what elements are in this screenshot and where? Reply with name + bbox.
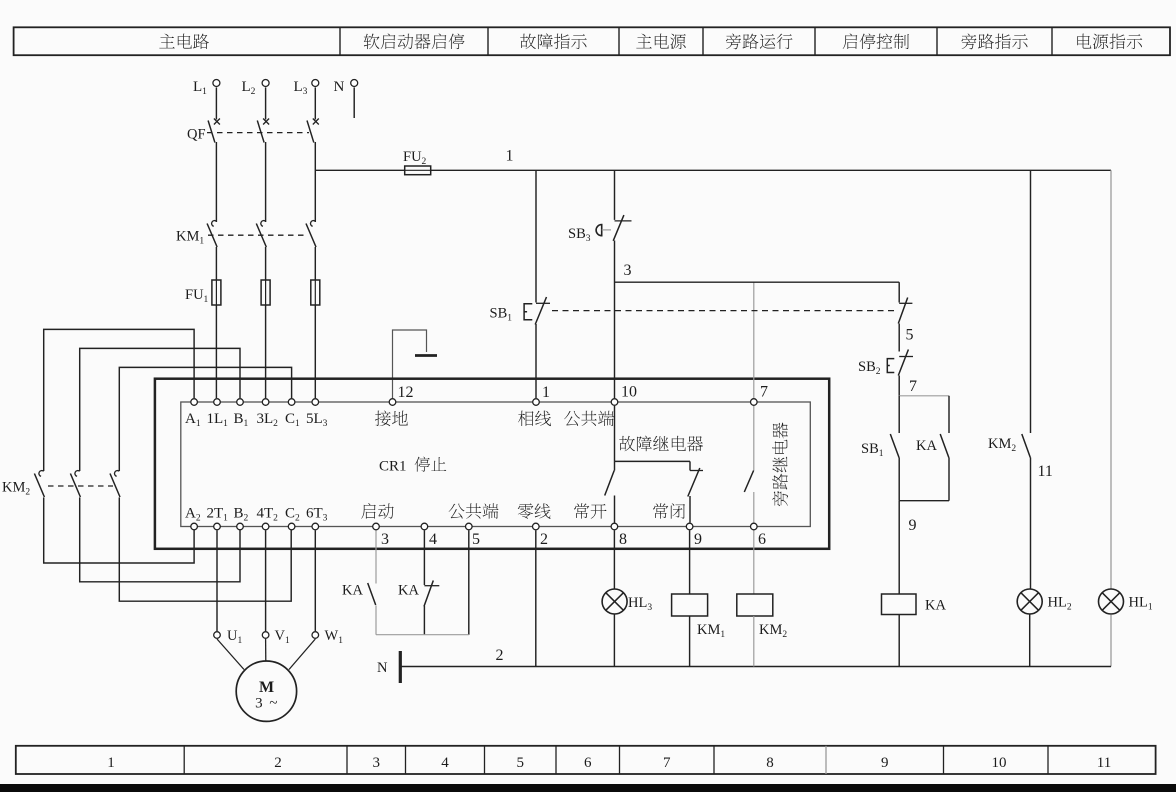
wire start branch bottom	[899, 500, 949, 502]
terminal A2	[191, 523, 198, 530]
SB1 linkage dashed	[552, 310, 896, 312]
contactor coil KM1	[672, 594, 708, 616]
svg-text:1: 1	[506, 147, 514, 164]
contactor KM2 pole 3	[110, 471, 120, 498]
wire line 3	[615, 281, 900, 283]
svg-text:7: 7	[663, 755, 671, 771]
wire terminal9 to KM1 coil	[689, 531, 691, 595]
header label 故障指示	[520, 33, 587, 49]
label NO cn	[574, 503, 606, 518]
wire rail 2	[400, 666, 1111, 668]
wire bypass loop B bottom	[80, 498, 240, 582]
terminal 2T1	[214, 523, 221, 530]
pushbutton SB1 left pole	[524, 297, 550, 325]
wire L1 drop	[215, 87, 217, 119]
wire bypass loop A top	[44, 329, 194, 471]
svg-text:3: 3	[381, 531, 389, 548]
svg-text:KA: KA	[925, 598, 946, 614]
ground	[415, 354, 437, 357]
svg-text:9: 9	[909, 517, 917, 534]
fault relay NO contact	[605, 461, 615, 522]
terminal 6T3	[312, 523, 319, 530]
svg-text:5: 5	[906, 327, 914, 344]
label ground cn	[375, 411, 408, 427]
pushbutton SB3	[596, 215, 631, 241]
wire terminal2 to rail	[535, 531, 537, 667]
svg-text:10: 10	[992, 755, 1007, 771]
wire terminal4 down	[423, 531, 425, 586]
fuse FU2	[405, 166, 431, 175]
svg-text:3: 3	[373, 755, 381, 771]
label common cn top	[564, 411, 614, 426]
wire node3 down	[898, 282, 900, 302]
relay contact KA latch	[940, 434, 949, 501]
terminal V1	[262, 632, 269, 639]
svg-text:QF: QF	[187, 127, 206, 143]
label neutral cn	[518, 503, 551, 518]
terminal L1	[213, 80, 220, 87]
wire bypass loop C bottom	[119, 498, 291, 602]
soft starter CR1 outer box	[155, 379, 829, 549]
QF linkage dashed	[207, 132, 309, 134]
wire SB1 to terminal 1	[535, 324, 537, 398]
wire bypass loop B top	[80, 348, 240, 471]
terminal 6 bottom	[751, 523, 758, 530]
wire terminal12 riser	[393, 330, 427, 398]
label start cn	[361, 503, 394, 519]
header label 启停控制	[843, 33, 909, 49]
wire 2T1 to U1	[216, 531, 218, 632]
svg-text:11: 11	[1097, 755, 1111, 771]
header label 电源指示	[1077, 34, 1142, 50]
contactor coil KM2	[737, 594, 773, 616]
header label 旁路运行	[726, 33, 793, 49]
fuse FU1 pole 2	[261, 280, 270, 305]
wire terminal8 to HL3	[613, 531, 615, 589]
wire KA NC to rail	[423, 606, 425, 635]
terminal C1	[288, 399, 295, 406]
label phase line cn	[518, 411, 551, 426]
svg-text:2: 2	[496, 647, 504, 664]
terminal 7	[751, 399, 758, 406]
motor lead U1	[217, 639, 244, 670]
wire FU1-c to 5L3	[314, 305, 316, 398]
relay coil KA	[882, 594, 917, 615]
terminal 10	[611, 399, 618, 406]
KM2 linkage dashed	[48, 485, 113, 487]
svg-text:M: M	[259, 679, 274, 696]
label bypass relay cn vertical	[772, 422, 788, 506]
wire FU1-a to 1L1	[215, 305, 217, 398]
wire line1 to KM2 aux	[1030, 170, 1032, 433]
svg-text:N: N	[334, 79, 345, 95]
lamp HL2	[1017, 589, 1042, 614]
wire terminal5 down	[468, 531, 470, 635]
wire L2 drop	[265, 87, 267, 119]
svg-text:7: 7	[909, 378, 917, 395]
wire start branch left	[898, 396, 900, 433]
terminal U1	[214, 632, 221, 639]
terminal 4 bottom	[421, 523, 428, 530]
bypass relay contact	[744, 406, 754, 523]
wire HL1 to N	[1110, 615, 1112, 667]
wire L3 drop	[314, 87, 316, 119]
fuse FU1 pole 1	[212, 280, 221, 305]
wire line1 to SB1	[535, 170, 537, 302]
KM1 linkage dashed	[208, 234, 307, 236]
wire start branch top	[899, 395, 949, 397]
motor M	[236, 661, 296, 721]
wire bypass loop C top	[119, 367, 291, 471]
aux contact KM2	[1022, 434, 1031, 589]
label CR1 stop	[415, 457, 447, 472]
svg-text:CR1: CR1	[379, 459, 407, 475]
wire line 1	[431, 169, 1111, 171]
svg-text:3 ~: 3 ~	[255, 696, 279, 712]
header column table	[14, 27, 1170, 55]
header label 主电路	[159, 34, 209, 49]
fault relay NC contact	[688, 468, 703, 523]
svg-text:2: 2	[274, 755, 282, 771]
contactor KM1 pole 3	[306, 221, 316, 248]
fault relay wiring	[614, 406, 616, 461]
start button SB1 NO contact	[890, 434, 899, 501]
bottom black bar	[0, 784, 1176, 792]
relay contact KA NC	[424, 581, 439, 607]
svg-text:6: 6	[758, 531, 766, 548]
terminal 5 bottom	[466, 523, 473, 530]
wire N stub	[353, 87, 355, 118]
breaker QF pole 3	[307, 119, 319, 223]
stop contact SB1 right pole	[898, 298, 912, 352]
svg-text:7: 7	[760, 384, 768, 401]
N tick	[399, 651, 402, 683]
terminal 3 bottom	[373, 523, 380, 530]
svg-text:KA: KA	[342, 583, 363, 599]
svg-text:6: 6	[584, 755, 592, 771]
motor lead V1	[265, 639, 267, 661]
wire SB3 to node3	[614, 241, 616, 399]
contactor KM2 pole 1	[34, 471, 44, 498]
svg-text:KA: KA	[916, 438, 937, 454]
svg-text:12: 12	[398, 384, 414, 401]
wire start branch right	[948, 396, 950, 433]
terminal 3L2	[262, 399, 269, 406]
terminal C2	[288, 523, 295, 530]
lamp HL1	[1099, 589, 1124, 614]
wire line1 to SB3	[614, 170, 616, 220]
terminal B1	[237, 399, 244, 406]
label fault relay cn	[619, 436, 703, 452]
bottom zone table	[16, 746, 1156, 774]
wire terminal3 down	[375, 531, 377, 584]
wire to KA coil	[898, 501, 900, 594]
svg-text:9: 9	[881, 755, 889, 771]
terminal L3	[312, 80, 319, 87]
breaker QF pole 1	[208, 119, 220, 223]
svg-text:8: 8	[766, 755, 774, 771]
wire HL3 to rail	[613, 615, 615, 667]
wire KM1 coil to rail	[689, 616, 691, 667]
terminal 1L1	[214, 399, 221, 406]
svg-text:8: 8	[619, 531, 627, 548]
wire FU1-b to 3L2	[265, 305, 267, 398]
svg-text:10: 10	[621, 384, 637, 401]
terminal 4T2	[262, 523, 269, 530]
wire terminal6 to KM2 coil	[753, 531, 755, 595]
wire KA to rail	[375, 606, 377, 635]
svg-text:11: 11	[1038, 463, 1053, 480]
svg-text:N: N	[377, 660, 388, 676]
wire 6T3 to W1	[314, 531, 316, 632]
contactor KM1 pole 2	[256, 221, 266, 248]
svg-text:1: 1	[542, 384, 550, 401]
terminal 9 bottom	[686, 523, 693, 530]
svg-text:9: 9	[694, 531, 702, 548]
header label 软启动器启停	[364, 33, 465, 49]
contactor KM2 pole 2	[70, 471, 80, 498]
wire bypass loop A bottom	[44, 498, 194, 564]
label common cn bottom	[449, 503, 499, 518]
relay contact KA start	[368, 583, 376, 605]
wire L3 tap to FU2	[315, 169, 404, 171]
lamp HL3	[602, 589, 627, 614]
terminal 1	[533, 399, 540, 406]
terminal A1	[191, 399, 198, 406]
wire 4T2 to V1	[265, 531, 267, 632]
terminal B2	[237, 523, 244, 530]
pushbutton SB2	[887, 350, 913, 396]
terminal N	[351, 80, 358, 87]
fuse FU1 pole 3	[311, 280, 320, 305]
wire line1 to HL1	[1110, 170, 1112, 588]
svg-text:KA: KA	[398, 583, 419, 599]
svg-text:3: 3	[624, 262, 632, 279]
svg-text:5: 5	[517, 755, 525, 771]
terminal L2	[262, 80, 269, 87]
motor lead W1	[289, 639, 315, 670]
svg-text:1: 1	[107, 755, 115, 771]
header label 旁路指示	[961, 33, 1027, 49]
breaker QF pole 2	[257, 119, 269, 223]
wire KA coil to N	[898, 615, 900, 667]
contactor KM1 pole 1	[207, 221, 217, 248]
terminal 5L3	[312, 399, 319, 406]
terminal W1	[312, 632, 319, 639]
wire node3 to terminal 7	[753, 282, 755, 398]
header label 主电源	[636, 34, 686, 49]
soft starter CR1 inner box	[181, 402, 811, 527]
svg-text:4: 4	[441, 755, 449, 771]
wire KA rail	[376, 634, 469, 636]
wire HL2 to N	[1029, 615, 1031, 667]
terminal 8 bottom	[611, 523, 618, 530]
terminal 12	[389, 399, 396, 406]
terminal 2 bottom	[533, 523, 540, 530]
svg-text:5: 5	[472, 531, 480, 548]
svg-text:4: 4	[429, 531, 437, 548]
label NC cn	[653, 503, 685, 519]
wire KM2 coil to rail	[753, 616, 755, 667]
svg-text:2: 2	[540, 531, 548, 548]
